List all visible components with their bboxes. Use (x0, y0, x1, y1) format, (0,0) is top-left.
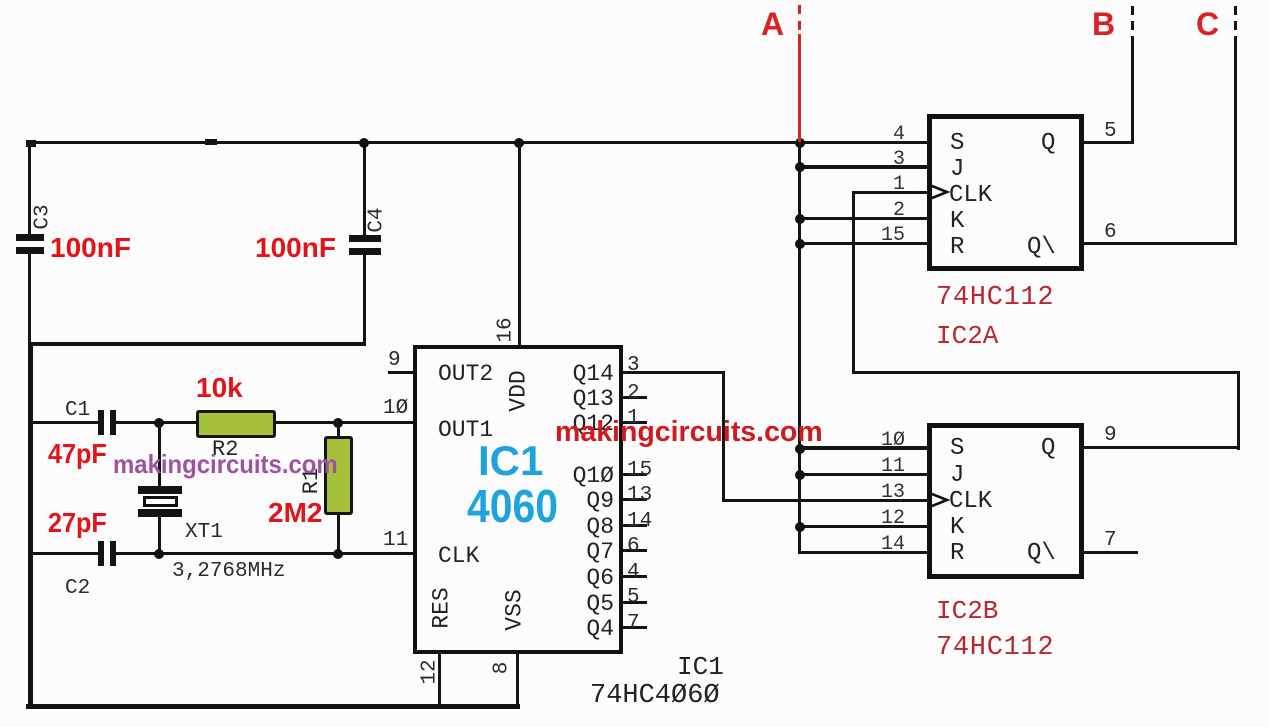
pin number 10 (383, 398, 408, 419)
node A dashed red (0, 0, 1, 1)
pin number 6 (627, 536, 640, 557)
pin 13 stub (622, 498, 647, 501)
label 74HC112 IC2A (936, 285, 1054, 312)
wire IC2B Qbar stub (1081, 551, 1138, 554)
pin number 11 (383, 530, 408, 551)
wire IC2A Qbar line (1081, 242, 1237, 245)
label K IC2A (950, 210, 964, 234)
node junction A/S2B (795, 444, 805, 454)
label Q IC2B (1041, 437, 1055, 461)
pin number 3 (627, 355, 640, 376)
capacitor C1 (0, 0, 1, 1)
wire VDD pin16 stub (518, 141, 521, 348)
wire IC2B K line (798, 525, 928, 528)
label J IC2A (950, 158, 964, 182)
label CLK IC2B (949, 490, 992, 514)
wire C1 left segment (31, 421, 98, 424)
node junction A/R2A (795, 239, 805, 249)
node junction R1 top (333, 418, 343, 428)
label Q5 (530, 593, 614, 616)
node C label (1196, 8, 1219, 40)
label OUT2 (438, 363, 493, 386)
value C1 47pF (48, 440, 107, 468)
node junction R1 bottom (333, 549, 343, 559)
pin number 12 IC2B (875, 509, 905, 529)
node junction A/K2A (795, 214, 805, 224)
wire IC2B S line (798, 446, 928, 450)
pin 7 stub (622, 626, 647, 629)
label Q IC2A (1041, 132, 1055, 156)
wire C3 branch lower (28, 253, 31, 345)
pin 12 stub (438, 653, 441, 706)
label K IC2B (950, 516, 964, 540)
pin number 1 IC2A (875, 175, 905, 195)
IC1 box (413, 345, 623, 654)
label IC1 designator (677, 654, 724, 680)
pin number 4 (875, 125, 905, 145)
label Q9 (530, 490, 614, 513)
wire top rail tick (205, 139, 217, 145)
wire C4 branch lower (363, 254, 366, 344)
pin number 12 rotated (420, 659, 441, 684)
pin number 8 rotated (492, 662, 513, 675)
pin number 7 IC2B (1104, 530, 1117, 551)
pin number 5 (1104, 121, 1117, 142)
wire IC2B J line (798, 473, 928, 476)
wire IC2B R line (798, 551, 928, 554)
label IC2A (936, 323, 998, 349)
label Q12 (530, 413, 614, 436)
label 74HC4060 (590, 683, 720, 710)
pin number 7 (627, 613, 640, 634)
pin 2 stub (622, 396, 647, 399)
value C4 100nF (255, 234, 336, 262)
crystal XT1 (0, 0, 1, 1)
node junction A/J2A (795, 162, 805, 172)
value C2 27pF (48, 509, 107, 537)
pin number 3 IC2A (875, 150, 905, 170)
pin number 15 (627, 460, 652, 481)
node junction XT1 bottom (154, 549, 164, 559)
label S IC2B (950, 437, 964, 461)
node B label (1092, 8, 1115, 40)
wire C4 branch upper (363, 141, 366, 236)
node junction top/C4 (359, 138, 369, 148)
pin number 2 (627, 383, 640, 404)
label Q7 (530, 541, 614, 564)
node junction top/A (795, 138, 805, 148)
pin number 11 IC2B (875, 457, 905, 477)
value C3 100nF (50, 234, 131, 262)
wire Q14 vertical (722, 371, 725, 501)
wire C2 left segment (31, 552, 98, 555)
pin number 1 (627, 408, 640, 429)
wire R1 top stub (337, 421, 340, 436)
pin 4 stub (622, 575, 647, 578)
wire top rail (28, 141, 929, 144)
pin 8 stub (516, 653, 519, 706)
wire bottom thick rail (26, 704, 520, 709)
wire C vertical (1234, 44, 1237, 245)
wire IC2A CLK vertical (852, 191, 855, 374)
label C4 (367, 207, 388, 232)
IC2A clock triangle (927, 183, 951, 202)
pin number 9 (388, 350, 401, 371)
label VSS rotated (504, 589, 527, 630)
pin number 14 IC2B (875, 535, 905, 555)
pin number 6 (1104, 222, 1117, 243)
node top-left corner (26, 140, 36, 147)
pin number 14 (627, 511, 652, 532)
label Q14 (530, 363, 614, 386)
node junction XT1 top (154, 418, 164, 428)
wire A black vertical (798, 142, 801, 554)
label S IC2A (950, 132, 964, 156)
wire R1 bottom stub (337, 515, 340, 554)
capacitor C2 (0, 0, 1, 1)
pin 1 stub (622, 421, 647, 424)
label CLK IC2A (949, 184, 992, 208)
pin number 16 (496, 317, 517, 342)
capacitor C3 (0, 0, 1, 1)
wire crystal bottom stub (158, 517, 161, 554)
wire crystal top stub (158, 421, 161, 487)
label C3 (33, 204, 54, 229)
label Qbar IC2A (1027, 236, 1056, 260)
wire to IC2B CLK (722, 499, 928, 502)
IC2A box (927, 114, 1084, 271)
pin 14 stub (622, 524, 647, 527)
resistor R2 (196, 410, 276, 438)
wire IC2A R line (798, 242, 929, 245)
pin 15 stub (622, 473, 647, 476)
wire C3 branch upper (28, 141, 31, 235)
pin number 13 (627, 485, 652, 506)
label Q6 (530, 567, 614, 590)
IC2B box (927, 423, 1084, 579)
wire B vertical (1131, 44, 1134, 144)
label R1 (301, 468, 323, 494)
pin number 9 IC2B (1104, 425, 1117, 446)
label CLK (438, 545, 479, 568)
node junction A/J2B (795, 470, 805, 480)
node junction top/VDD (514, 138, 524, 148)
value R2 10k (196, 374, 243, 402)
wire C2 right segment to pin11 (116, 552, 414, 555)
pin number 2 IC2A (875, 201, 905, 221)
wire cascade horizontal (852, 371, 1240, 374)
label Q13 (530, 388, 614, 411)
pin number 13 IC2B (875, 483, 905, 503)
wire C1 right segment to pin10 (116, 421, 414, 424)
wire IC2B Q line (1081, 446, 1240, 449)
capacitor C4 (0, 0, 1, 1)
label OUT1 (438, 419, 493, 442)
value R1 2M2 (268, 499, 322, 527)
watermark red makingcircuits.com (555, 418, 823, 447)
watermark purple makingcircuits.com (113, 451, 338, 477)
label Q10 (530, 465, 614, 488)
label 4060 blue (467, 483, 558, 529)
label J IC2B (950, 464, 964, 488)
label R2 (212, 439, 238, 461)
wire IC2A J line (798, 165, 929, 169)
label XT1 (185, 522, 223, 543)
pin number 4 (627, 562, 640, 583)
resistor R1 (324, 436, 353, 515)
node junction A/K2B (795, 522, 805, 532)
label C1 (65, 400, 90, 421)
wire cascade right vertical (1237, 371, 1240, 450)
label R IC2B (950, 542, 964, 566)
value XT1 3,2768MHz (172, 561, 285, 582)
pin 5 stub (622, 601, 647, 604)
wire IC2A CLK horizontal (852, 191, 929, 194)
label VDD rotated (508, 370, 531, 411)
pin number 5 (627, 587, 640, 608)
node C dashed (0, 0, 1, 1)
wire Q14 horizontal (622, 371, 725, 374)
label Q8 (530, 516, 614, 539)
label IC1 blue (478, 440, 543, 482)
pin 6 stub (622, 549, 647, 552)
wire left thick vertical (28, 342, 33, 708)
pin number 10 IC2B (875, 431, 905, 451)
node B dashed (0, 0, 1, 1)
label Q4 (530, 618, 614, 641)
label C2 (65, 578, 90, 599)
label IC2B (936, 598, 998, 624)
node A label (761, 8, 784, 40)
label Qbar IC2B (1027, 542, 1056, 566)
wire A red vertical (798, 34, 801, 143)
label 74HC112 IC2B (936, 635, 1054, 662)
label RES rotated (431, 587, 454, 628)
label R IC2A (950, 236, 964, 260)
pin 9 stub (388, 371, 414, 374)
IC2B clock triangle (927, 491, 951, 510)
wire IC2A K line (798, 217, 929, 220)
wire IC2A Q line (1081, 141, 1134, 144)
wire mid thick rail (28, 342, 366, 346)
pin number 15 IC2A (875, 226, 905, 246)
